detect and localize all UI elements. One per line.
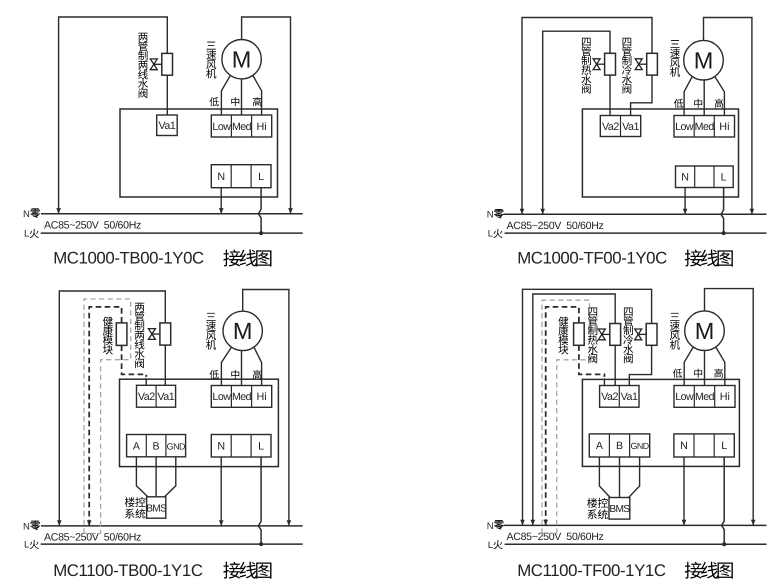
motor 3-speed fan M Q2 — [684, 40, 724, 80]
svg-text:N: N — [681, 172, 689, 184]
svg-text:GND: GND — [630, 441, 648, 451]
junction dot L bus Q3 — [259, 542, 263, 546]
wire neutral to cold valve Q2 — [520, 18, 652, 215]
BMS building management box Q4 — [609, 498, 630, 520]
label BMS system text Q3 — [125, 497, 146, 518]
wire N neutral bus Q2 — [504, 213, 767, 215]
wire motor legs Q1 — [221, 75, 261, 115]
svg-text:N: N — [217, 441, 225, 453]
terminal Low Med Hi Q1 — [211, 115, 271, 137]
thermostat controller box Q4 — [582, 379, 739, 466]
svg-text:GND: GND — [167, 441, 185, 451]
wire neutral to health module dashed Q3 — [87, 307, 122, 526]
wire L live bus Q2 — [505, 232, 767, 234]
wire motor legs Q3 — [221, 347, 261, 385]
svg-text:Va2: Va2 — [601, 391, 618, 403]
valve cold-water actuator Q2 — [635, 53, 657, 75]
svg-text:N: N — [487, 210, 494, 221]
wire terminal N to neutral bus Q2 — [683, 188, 688, 215]
label health module text Q3 — [103, 317, 113, 355]
BMS building management box Q3 — [146, 497, 167, 518]
terminal Va1 Q1 — [157, 115, 178, 136]
svg-text:L: L — [721, 440, 727, 452]
terminal N L Q1 — [211, 165, 271, 188]
svg-text:Va2: Va2 — [138, 391, 155, 403]
wire terminal N to neutral bus Q1 — [219, 188, 224, 214]
svg-text:Hi: Hi — [719, 121, 729, 133]
terminal Low Med Hi Q2 — [674, 116, 735, 138]
svg-text:AC85~250V 50/60Hz: AC85~250V 50/60Hz — [44, 220, 141, 232]
wire health module to Va2 dashed Q3 — [122, 345, 147, 377]
wire N neutral bus Q3 — [41, 525, 303, 527]
label N neutral Q4 — [487, 520, 504, 532]
title MC1000-TF00-1Y0C wiring-diagram Q2 — [517, 248, 733, 267]
label cold valve text Q2 — [622, 38, 632, 94]
motor 3-speed fan M Q4 — [685, 311, 725, 351]
wire terminal B to BMS Q3 — [155, 457, 157, 497]
wire cold valve to Va1 Q4 — [629, 345, 651, 385]
label AC rating Q3 — [44, 532, 141, 544]
svg-text:L: L — [488, 229, 493, 240]
wire motor to neutral Q1 — [242, 17, 293, 214]
valve two-pipe actuator Q3 — [148, 323, 170, 345]
svg-text:Va1: Va1 — [157, 391, 174, 403]
wire terminal N to neutral bus Q4 — [682, 457, 687, 525]
wire neutral to cold valve Q4 — [520, 289, 651, 525]
svg-text:A: A — [596, 440, 604, 452]
thermostat controller box Q1 — [120, 109, 278, 197]
svg-text:L: L — [488, 540, 493, 551]
label L live Q2 — [488, 229, 503, 240]
label AC rating Q1 — [44, 220, 141, 232]
svg-text:M: M — [695, 318, 715, 344]
label valve text Q1 — [138, 33, 148, 98]
svg-text:Hi: Hi — [256, 391, 266, 403]
label speed mid Q4 — [694, 369, 702, 378]
svg-text:A: A — [133, 440, 141, 452]
title MC1100-TF00-1Y1C wiring-diagram Q4 — [517, 561, 733, 580]
svg-text:MC1000-TF00-1Y0C: MC1000-TF00-1Y0C — [517, 248, 667, 267]
svg-text:B: B — [153, 440, 160, 452]
svg-text:N: N — [680, 440, 688, 452]
svg-text:BMS: BMS — [146, 503, 167, 514]
svg-text:Va1: Va1 — [622, 121, 639, 133]
thermostat controller box Q2 — [582, 109, 738, 197]
wire stub into Va2 Q4 — [603, 378, 605, 385]
terminal N L Q2 — [676, 166, 734, 188]
svg-text:N: N — [23, 521, 30, 532]
wire L live bus Q3 — [41, 543, 303, 545]
wire valve to Va1 Q3 — [164, 345, 166, 385]
svg-text:Med: Med — [695, 121, 715, 133]
terminal Low Med Hi Q3 — [211, 386, 271, 408]
label fan text Q3 — [206, 313, 216, 350]
health module component Q4 — [574, 323, 585, 345]
health module component Q3 — [116, 323, 127, 346]
wire motor legs Q4 — [684, 347, 725, 386]
label speed low Q3 — [209, 370, 218, 379]
label health module text Q4 — [558, 317, 568, 355]
label valve text Q3 — [135, 303, 145, 368]
svg-text:L: L — [258, 171, 264, 183]
wire terminal L to live bus with hop Q4 — [722, 457, 725, 544]
svg-text:Va1: Va1 — [621, 391, 638, 403]
wire terminal L to live bus with hop Q1 — [258, 188, 261, 233]
svg-text:Med: Med — [232, 391, 252, 403]
wire terminal A to BMS Q4 — [599, 457, 610, 498]
svg-text:Hi: Hi — [256, 121, 266, 133]
label speed low Q4 — [673, 369, 682, 378]
svg-text:MC1100-TF00-1Y1C: MC1100-TF00-1Y1C — [517, 561, 666, 580]
svg-text:MC1100-TB00-1Y1C: MC1100-TB00-1Y1C — [53, 561, 203, 580]
svg-text:M: M — [232, 46, 252, 72]
thermostat controller box Q3 — [120, 379, 279, 466]
wire neutral to hot valve Q4 — [531, 294, 616, 525]
wire hot valve to Va2 Q2 — [609, 75, 611, 115]
motor 3-speed fan M Q1 — [222, 40, 261, 79]
terminal Va2 Va1 Q2 — [600, 116, 640, 137]
wire terminal B to BMS Q4 — [619, 457, 621, 498]
motor 3-speed fan M Q3 — [223, 311, 262, 350]
svg-text:Low: Low — [212, 121, 231, 133]
wire health module to Va2 dashed Q4 — [579, 345, 605, 377]
junction dot L bus Q4 — [722, 542, 726, 546]
svg-text:Med: Med — [695, 391, 715, 403]
svg-text:Low: Low — [675, 121, 694, 133]
terminal A B GND Q4 — [589, 434, 649, 457]
svg-text:L: L — [24, 540, 29, 551]
label speed low Q1 — [209, 97, 218, 106]
wire cold valve to Va1 Q2 — [631, 75, 652, 115]
wire stub into Va2 Q3 — [145, 378, 147, 385]
svg-text:N: N — [23, 209, 30, 220]
label cold valve text Q4 — [623, 307, 633, 363]
label N neutral Q2 — [487, 209, 504, 221]
wire terminal N to neutral bus Q3 — [219, 457, 224, 526]
svg-text:AC85~250V 50/60Hz: AC85~250V 50/60Hz — [507, 220, 604, 232]
wire terminal L to live bus with hop Q3 — [258, 457, 261, 544]
wire terminal GND to BMS Q3 — [165, 457, 176, 497]
wire terminal GND to BMS Q4 — [629, 457, 640, 498]
svg-text:N: N — [217, 171, 225, 183]
wire L live bus Q4 — [505, 543, 767, 545]
label AC rating Q2 — [507, 220, 604, 232]
svg-text:M: M — [233, 318, 253, 344]
svg-text:Va1: Va1 — [158, 120, 175, 132]
wire neutral to health module dashed Q4 — [543, 307, 579, 526]
terminal Va2 Va1 Q4 — [600, 386, 639, 408]
label L live Q3 — [24, 540, 39, 551]
optional health-module enclosure dashed Q4 — [542, 300, 590, 533]
wire terminal L to live bus with hop Q2 — [721, 188, 724, 234]
wire neutral to valve Q3 — [57, 291, 165, 526]
label fan text Q2 — [670, 40, 680, 77]
wire N neutral bus Q1 — [41, 213, 303, 215]
label fan text Q1 — [206, 42, 216, 79]
wire valve to Va1 Q1 — [166, 75, 168, 115]
wire motor to neutral Q4 — [705, 289, 756, 526]
label N neutral Q3 — [23, 521, 40, 533]
junction dot L bus Q2 — [722, 231, 726, 235]
label speed high Q1 — [253, 97, 262, 106]
label N neutral Q1 — [23, 208, 40, 220]
svg-text:B: B — [616, 440, 623, 452]
label L live Q4 — [488, 540, 503, 551]
label hot valve text Q2 — [581, 38, 591, 94]
svg-text:Low: Low — [212, 391, 231, 403]
label speed mid Q3 — [231, 370, 239, 379]
wire neutral to valve Q1 — [56, 17, 167, 214]
terminal A B GND Q3 — [127, 435, 186, 457]
label speed high Q4 — [714, 369, 723, 378]
svg-text:BMS: BMS — [609, 504, 630, 515]
terminal Va2 Va1 Q3 — [137, 385, 176, 407]
valve hot-water actuator Q4 — [598, 324, 620, 346]
svg-text:Hi: Hi — [720, 391, 730, 403]
wire motor to neutral Q2 — [704, 18, 755, 215]
label fan text Q4 — [670, 313, 680, 350]
wire motor legs Q2 — [684, 76, 724, 115]
wire N neutral bus Q4 — [504, 524, 767, 526]
svg-text:N: N — [487, 521, 494, 532]
label BMS system text Q4 — [587, 498, 608, 519]
label speed low Q2 — [674, 99, 683, 108]
title MC1000-TB00-1Y0C wiring-diagram Q1 — [53, 248, 271, 267]
terminal N L Q3 — [211, 435, 271, 458]
svg-text:Va2: Va2 — [602, 121, 619, 133]
junction dot L bus Q1 — [259, 231, 263, 235]
label AC rating Q4 — [507, 531, 604, 543]
wire terminal A to BMS Q3 — [136, 457, 147, 497]
wire neutral to hot valve Q2 — [540, 31, 610, 214]
title MC1100-TB00-1Y1C wiring-diagram Q3 — [53, 561, 271, 580]
svg-text:L: L — [721, 172, 727, 184]
wire motor to neutral Q3 — [243, 290, 292, 526]
svg-text:L: L — [24, 229, 29, 240]
wire hot valve to Va2 Q4 — [614, 345, 616, 385]
svg-text:Med: Med — [232, 121, 252, 133]
label speed high Q3 — [253, 370, 262, 379]
svg-text:M: M — [694, 47, 714, 73]
optional health-module enclosure dashed Q3 — [84, 299, 131, 533]
terminal N L Q4 — [674, 434, 734, 457]
label speed high Q2 — [715, 99, 724, 108]
label speed mid Q1 — [231, 97, 239, 106]
valve cold-water actuator Q4 — [635, 324, 657, 346]
svg-text:AC85~250V 50/60Hz: AC85~250V 50/60Hz — [507, 531, 604, 543]
label hot valve text Q4 — [588, 307, 598, 363]
svg-text:MC1000-TB00-1Y0C: MC1000-TB00-1Y0C — [53, 248, 204, 267]
terminal Low Med Hi Q4 — [674, 386, 735, 408]
wire L live bus Q1 — [41, 232, 303, 234]
label speed mid Q2 — [694, 99, 702, 108]
valve two-pipe actuator Q1 — [150, 53, 172, 75]
label L live Q1 — [24, 229, 39, 240]
svg-text:L: L — [258, 441, 264, 453]
svg-text:Low: Low — [675, 391, 694, 403]
valve hot-water actuator Q2 — [593, 53, 615, 75]
